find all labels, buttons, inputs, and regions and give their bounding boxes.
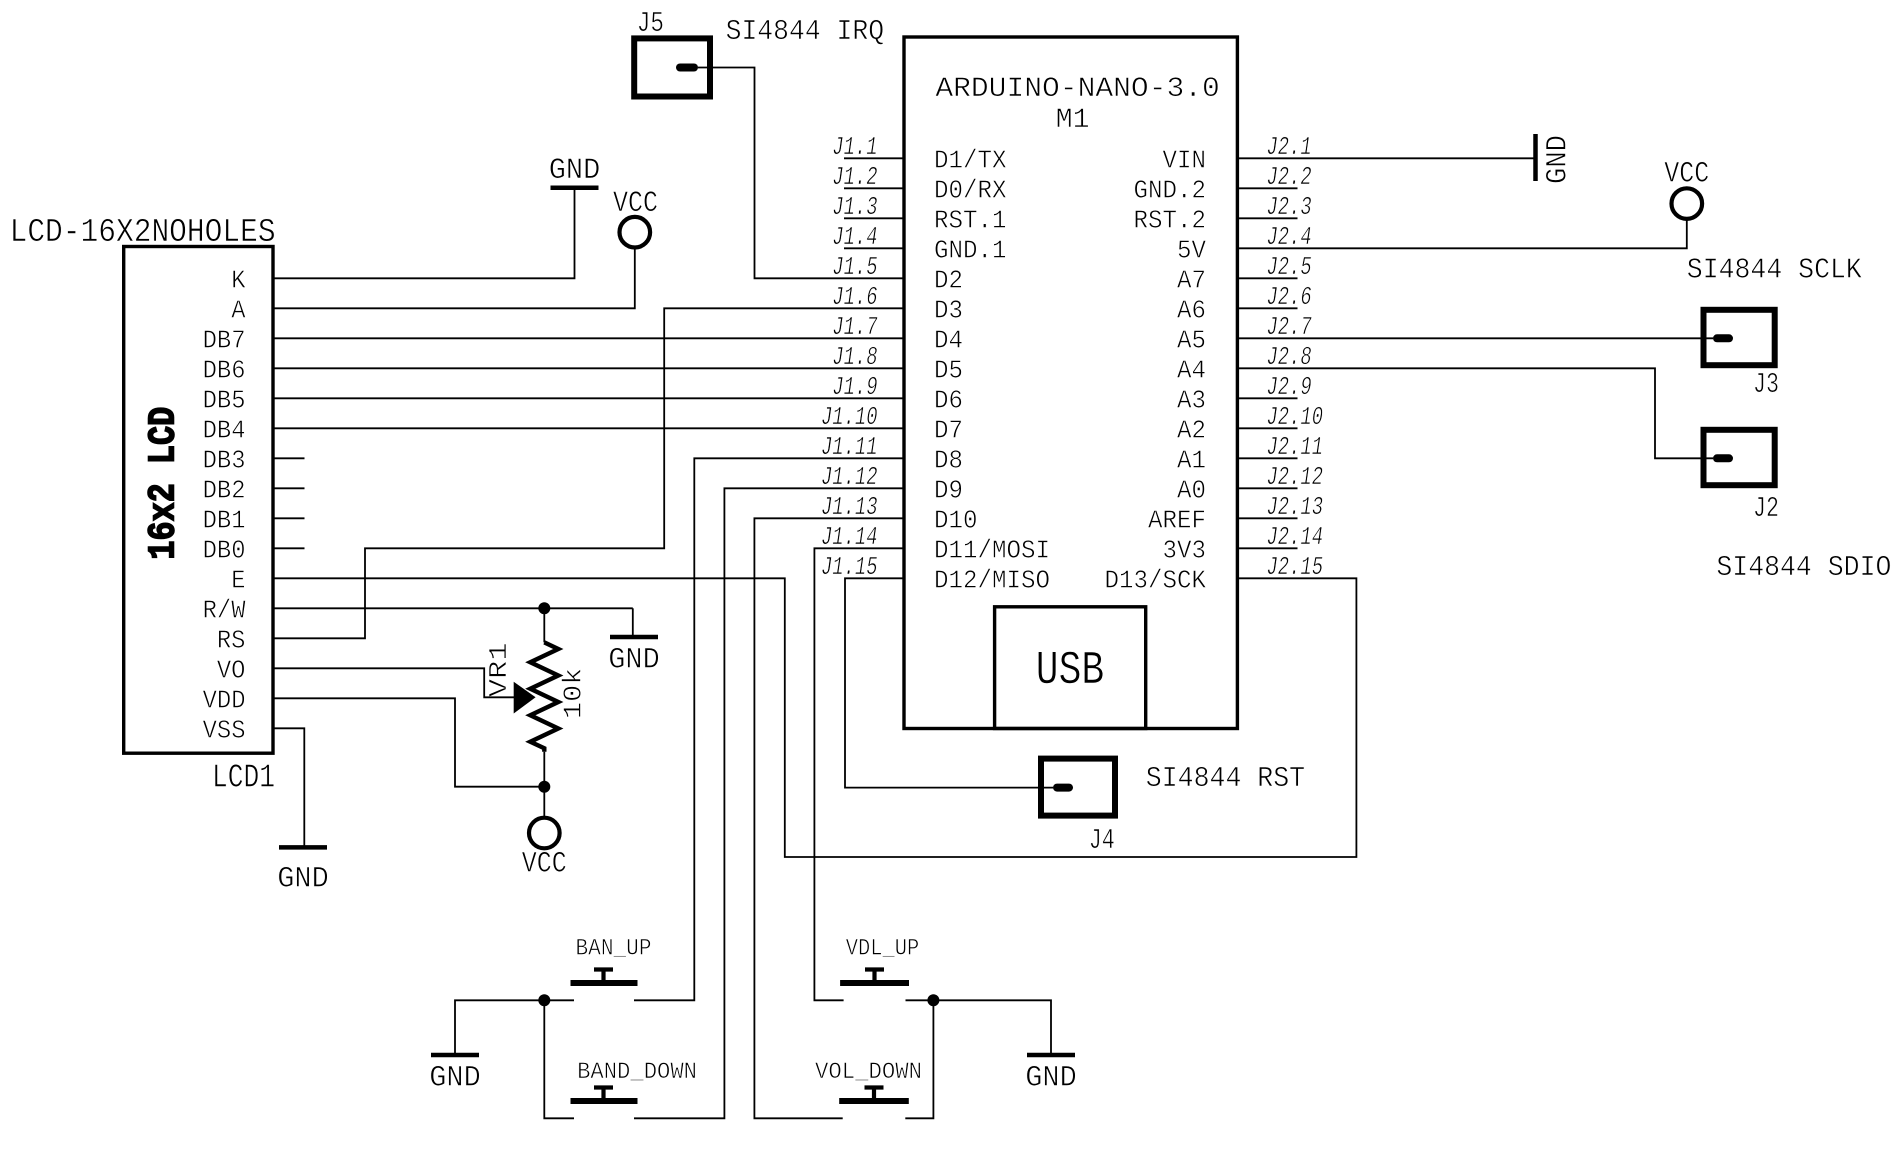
svg-text:A: A — [231, 296, 246, 326]
wire E to D13/SCK — [273, 578, 1356, 857]
svg-text:J2.7: J2.7 — [1267, 312, 1312, 342]
svg-text:DB7: DB7 — [203, 326, 246, 356]
pin stub LCD DB3 — [273, 457, 305, 459]
svg-text:DB0: DB0 — [203, 536, 246, 566]
svg-text:10k: 10k — [558, 668, 588, 719]
wire D8 to BAN_UP — [634, 458, 904, 1000]
svg-text:GND: GND — [429, 1062, 481, 1096]
svg-text:RST.1: RST.1 — [934, 206, 1007, 236]
svg-text:D12/MISO: D12/MISO — [934, 566, 1050, 596]
pin stub J2.13 — [1237, 517, 1297, 519]
svg-text:J5: J5 — [637, 7, 664, 40]
svg-text:VCC: VCC — [613, 187, 658, 221]
wire VIN to GND — [1237, 157, 1534, 159]
svg-text:VDD: VDD — [203, 686, 246, 716]
svg-text:SI4844 IRQ: SI4844 IRQ — [726, 15, 885, 48]
wire R/W to GND and VR1 — [273, 607, 633, 609]
svg-text:J1.12: J1.12 — [821, 462, 878, 492]
potentiometer VR1 resistor body — [530, 642, 558, 751]
LCD module LCD1 body — [124, 247, 273, 754]
svg-text:J1.14: J1.14 — [821, 522, 878, 552]
svg-text:AREF: AREF — [1148, 506, 1206, 536]
svg-text:D8: D8 — [934, 446, 963, 476]
svg-text:J1.8: J1.8 — [832, 342, 877, 372]
connector J2 pin pad — [1713, 454, 1733, 462]
switch BAND_DOWN — [571, 1098, 638, 1104]
svg-text:VIN: VIN — [1163, 146, 1207, 176]
junction left buttons — [538, 994, 550, 1006]
ground symbol (LCD K net) — [551, 185, 599, 190]
svg-text:J2.13: J2.13 — [1267, 492, 1324, 522]
svg-text:GND.2: GND.2 — [1134, 176, 1207, 206]
ground symbol (buttons right) — [1027, 1053, 1075, 1058]
svg-text:J1.15: J1.15 — [821, 552, 878, 582]
svg-text:GND: GND — [549, 154, 601, 188]
svg-text:D9: D9 — [934, 476, 963, 506]
connector J5 body — [634, 38, 710, 96]
connector J4 pin pad — [1053, 784, 1073, 792]
wire 5V to VCC — [1237, 218, 1686, 248]
pin stub J2.2 — [1237, 187, 1297, 189]
pin stub J2.11 — [1237, 457, 1297, 459]
svg-text:J1.6: J1.6 — [832, 282, 877, 312]
svg-text:J2.2: J2.2 — [1267, 162, 1312, 192]
svg-text:J1.4: J1.4 — [832, 222, 877, 252]
svg-text:D2: D2 — [934, 266, 963, 296]
potentiometer VR1 bottom lead — [543, 752, 545, 819]
wire VDD to VCC — [273, 698, 544, 786]
junction R/W-VR1 — [538, 602, 550, 614]
svg-text:J2: J2 — [1753, 492, 1779, 525]
potentiometer VR1 wiper arrow — [514, 682, 536, 714]
svg-text:SI4844 SCLK: SI4844 SCLK — [1687, 253, 1863, 286]
pin stub LCD DB1 — [273, 517, 305, 519]
svg-text:J2.12: J2.12 — [1267, 462, 1324, 492]
pin stub J2.9 — [1237, 397, 1297, 399]
wire DB5 to D6 — [273, 397, 904, 399]
wire K to GND — [273, 188, 575, 279]
svg-text:J4: J4 — [1089, 824, 1115, 857]
wire D9 to BAND_DOWN — [634, 488, 904, 1118]
svg-text:J2.8: J2.8 — [1267, 342, 1312, 372]
svg-text:SI4844 RST: SI4844 RST — [1146, 762, 1305, 795]
svg-text:VR1: VR1 — [484, 642, 514, 697]
pin stub J1.1 — [844, 157, 904, 159]
svg-text:A3: A3 — [1177, 386, 1206, 416]
svg-text:DB4: DB4 — [203, 416, 246, 446]
svg-text:J2.4: J2.4 — [1267, 222, 1312, 252]
USB connector block — [995, 607, 1146, 729]
svg-text:VDL_UP: VDL_UP — [846, 936, 919, 962]
svg-text:VSS: VSS — [203, 716, 246, 746]
pin stub J2.12 — [1237, 487, 1297, 489]
connector J4 body — [1041, 759, 1115, 816]
svg-text:A1: A1 — [1177, 446, 1206, 476]
wire DB4 to D7 — [273, 427, 904, 429]
connector J5 pin pad — [676, 64, 698, 72]
svg-text:J1.9: J1.9 — [832, 372, 877, 402]
svg-text:D6: D6 — [934, 386, 963, 416]
svg-text:A7: A7 — [1177, 266, 1206, 296]
svg-text:J2.10: J2.10 — [1267, 402, 1324, 432]
svg-text:GND: GND — [608, 644, 660, 678]
svg-text:DB2: DB2 — [203, 476, 246, 506]
svg-text:D10: D10 — [934, 506, 978, 536]
connector J2 body — [1704, 430, 1775, 485]
ground symbol (VIN net) — [1533, 134, 1538, 181]
svg-text:D3: D3 — [934, 296, 963, 326]
svg-text:J1.2: J1.2 — [832, 162, 877, 192]
wire A5 to J3 — [1237, 337, 1713, 339]
svg-text:J1.5: J1.5 — [832, 252, 877, 282]
wire RS to D3 — [273, 308, 904, 638]
svg-text:VCC: VCC — [1664, 158, 1709, 192]
wire D12/MISO to J4 — [845, 578, 1053, 787]
svg-text:DB6: DB6 — [203, 356, 246, 386]
power symbol VCC (VDD net) — [529, 818, 560, 849]
power symbol VCC (LCD A net) — [620, 217, 651, 248]
wire DB6 to D5 — [273, 367, 904, 369]
pin stub LCD DB0 — [273, 547, 305, 549]
svg-text:DB5: DB5 — [203, 386, 246, 416]
svg-text:GND: GND — [1025, 1062, 1077, 1096]
switch VOL_DOWN — [839, 1098, 909, 1104]
wire to ground (R/W net) — [632, 608, 634, 637]
connector J3 body — [1704, 310, 1775, 365]
pin stub J1.3 — [844, 217, 904, 219]
svg-text:J2.15: J2.15 — [1267, 552, 1324, 582]
svg-text:USB: USB — [1036, 645, 1105, 698]
svg-text:M1: M1 — [1056, 105, 1090, 136]
wire A to VCC — [273, 247, 635, 309]
svg-text:D5: D5 — [934, 356, 963, 386]
svg-text:A5: A5 — [1177, 326, 1206, 356]
ground symbol (buttons left) — [431, 1053, 479, 1058]
pin stub J2.5 — [1237, 277, 1297, 279]
switch BAN_UP — [571, 980, 638, 986]
wire A4 to J2 — [1237, 368, 1713, 458]
svg-text:R/W: R/W — [203, 596, 246, 626]
svg-text:J3: J3 — [1753, 368, 1779, 401]
svg-text:ARDUINO-NANO-3.0: ARDUINO-NANO-3.0 — [935, 74, 1220, 105]
svg-text:J1.10: J1.10 — [821, 402, 878, 432]
svg-text:RST.2: RST.2 — [1134, 206, 1207, 236]
wire BAN_UP to junction — [544, 999, 574, 1001]
svg-text:A4: A4 — [1177, 356, 1206, 386]
ground symbol (VSS net) — [279, 845, 327, 850]
wire junction to GND (right) — [933, 1000, 1051, 1055]
pin stub J2.14 — [1237, 547, 1297, 549]
svg-text:J2.9: J2.9 — [1267, 372, 1312, 402]
svg-text:J2.11: J2.11 — [1267, 432, 1324, 462]
power symbol VCC (5V net) — [1672, 188, 1703, 219]
svg-text:VO: VO — [217, 656, 246, 686]
wire J5 to D2 — [698, 68, 904, 279]
pin stub J1.4 — [844, 247, 904, 249]
connector J3 pin pad — [1713, 334, 1733, 342]
junction right buttons — [927, 994, 939, 1006]
svg-text:3V3: 3V3 — [1163, 536, 1207, 566]
svg-text:J1.3: J1.3 — [832, 192, 877, 222]
svg-text:D4: D4 — [934, 326, 963, 356]
pin stub J2.10 — [1237, 427, 1297, 429]
svg-text:D7: D7 — [934, 416, 963, 446]
pin stub J2.3 — [1237, 217, 1297, 219]
wire D10 to VOL_DOWN — [754, 518, 904, 1118]
svg-text:D11/MOSI: D11/MOSI — [934, 536, 1050, 566]
wire junction to GND (left) — [455, 1000, 544, 1055]
svg-text:J2.6: J2.6 — [1267, 282, 1312, 312]
wire junction to BAND_DOWN — [544, 1000, 574, 1118]
module M1 ARDUINO-NANO-3.0 body — [904, 37, 1237, 729]
svg-text:BAND_DOWN: BAND_DOWN — [577, 1059, 697, 1085]
ground symbol (R/W net) — [610, 635, 658, 640]
svg-text:A2: A2 — [1177, 416, 1206, 446]
svg-text:VCC: VCC — [522, 848, 567, 882]
svg-text:J1.1: J1.1 — [832, 132, 877, 162]
pin stub J2.6 — [1237, 307, 1297, 309]
svg-text:J1.7: J1.7 — [832, 312, 877, 342]
svg-text:J2.3: J2.3 — [1267, 192, 1312, 222]
svg-text:J1.11: J1.11 — [821, 432, 878, 462]
junction VDD-VR1 — [538, 781, 550, 793]
wire VDL_UP to junction — [906, 999, 934, 1001]
wire DB7 to D4 — [273, 337, 904, 339]
pin stub LCD DB2 — [273, 487, 305, 489]
svg-text:A6: A6 — [1177, 296, 1206, 326]
svg-text:D0/RX: D0/RX — [934, 176, 1007, 206]
svg-text:GND.1: GND.1 — [934, 236, 1007, 266]
svg-text:BAN_UP: BAN_UP — [576, 936, 652, 962]
wire VSS to GND — [273, 728, 304, 847]
wire VO to VR1 wiper — [273, 668, 514, 697]
svg-text:GND: GND — [1542, 135, 1576, 184]
svg-text:D1/TX: D1/TX — [934, 146, 1007, 176]
svg-text:J2.5: J2.5 — [1267, 252, 1312, 282]
svg-text:K: K — [231, 266, 246, 296]
switch VDL_UP — [840, 980, 909, 986]
svg-text:J2.14: J2.14 — [1267, 522, 1324, 552]
svg-text:D13/SCK: D13/SCK — [1105, 566, 1207, 596]
svg-text:VOL_DOWN: VOL_DOWN — [815, 1059, 922, 1085]
svg-text:SI4844 SDIO: SI4844 SDIO — [1716, 551, 1891, 584]
svg-text:GND: GND — [277, 863, 329, 897]
pin stub J1.2 — [844, 187, 904, 189]
svg-text:J1.13: J1.13 — [821, 492, 878, 522]
svg-text:LCD-16X2NOHOLES: LCD-16X2NOHOLES — [10, 214, 276, 251]
svg-text:DB1: DB1 — [203, 506, 246, 536]
wire VOL_DOWN to junction — [905, 1000, 933, 1118]
svg-text:DB3: DB3 — [203, 446, 246, 476]
svg-text:A0: A0 — [1177, 476, 1206, 506]
svg-text:RS: RS — [217, 626, 246, 656]
svg-text:LCD1: LCD1 — [212, 760, 275, 797]
svg-text:E: E — [231, 566, 245, 596]
potentiometer VR1 top lead — [543, 608, 545, 642]
svg-text:5V: 5V — [1177, 236, 1206, 266]
wire D11 to VDL_UP — [814, 548, 904, 1000]
svg-text:J2.1: J2.1 — [1267, 132, 1312, 162]
svg-text:16x2 LCD: 16x2 LCD — [142, 407, 185, 560]
